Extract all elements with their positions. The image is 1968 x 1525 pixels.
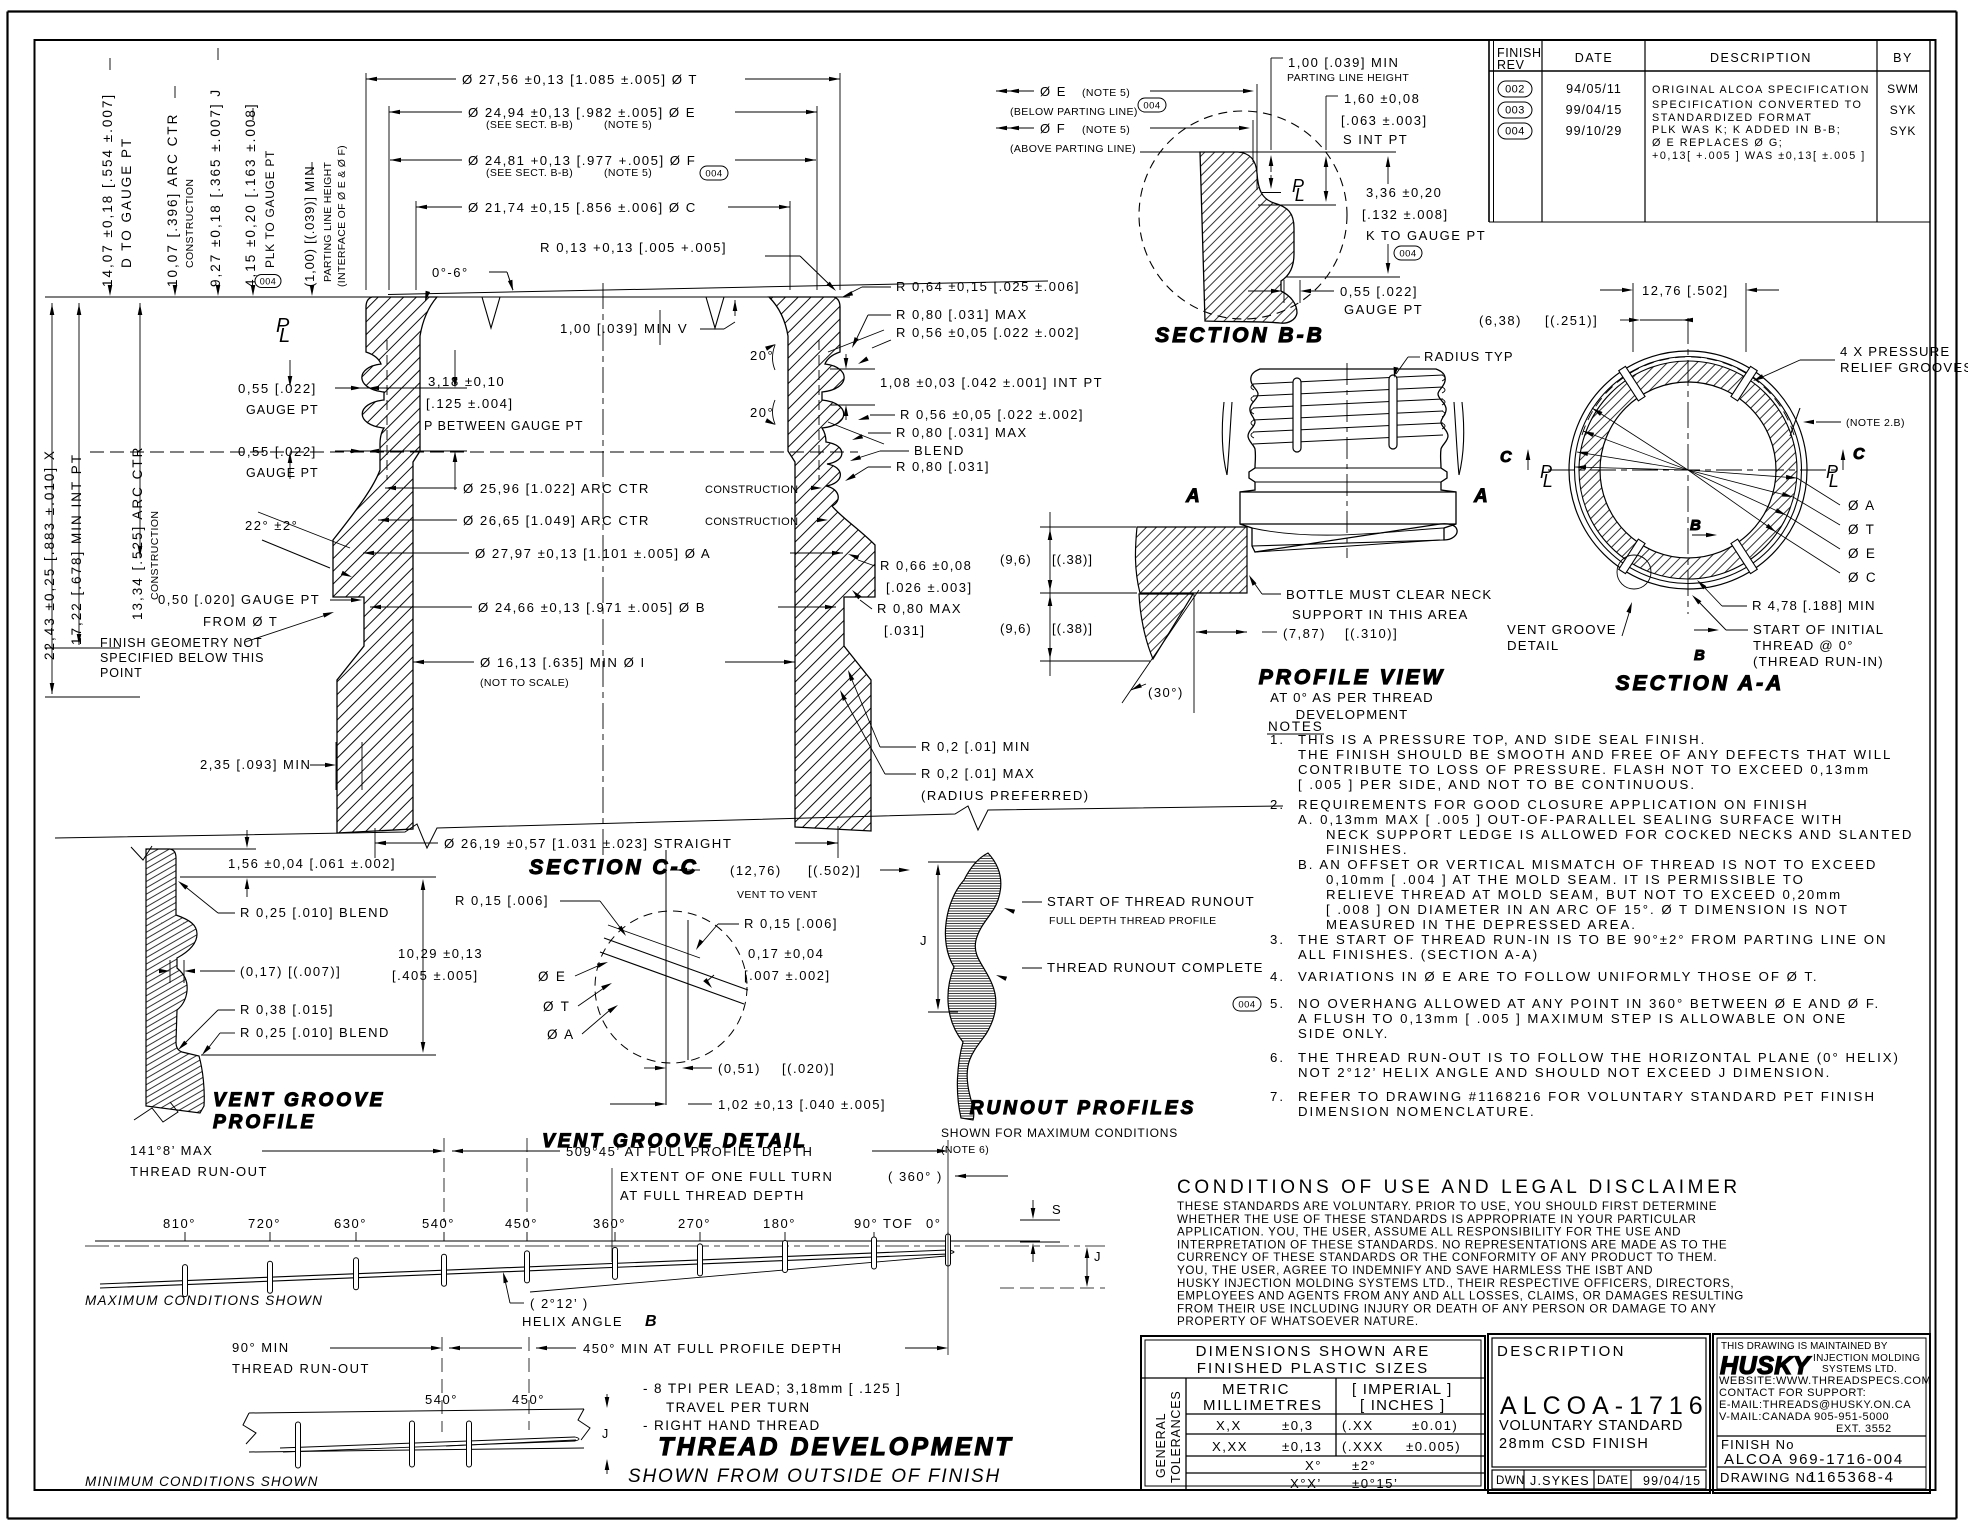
svg-text:B: B	[1694, 647, 1705, 664]
svg-text:450°: 450°	[512, 1392, 545, 1407]
svg-text:[.132 ±.008]: [.132 ±.008]	[1362, 207, 1449, 222]
svg-text:004: 004	[705, 168, 722, 179]
svg-text:(NOTE 5): (NOTE 5)	[1082, 124, 1130, 136]
svg-text:Ø A: Ø A	[1848, 498, 1876, 513]
svg-text:SECTION C-C: SECTION C-C	[529, 856, 699, 879]
svg-text:CONSTRUCTION: CONSTRUCTION	[705, 516, 798, 528]
svg-text:450° MIN AT FULL PROFILE DEPTH: 450° MIN AT FULL PROFILE DEPTH	[583, 1341, 842, 1356]
svg-text:1,00 [.039] MIN: 1,00 [.039] MIN	[1288, 55, 1399, 70]
svg-text:START OF INITIAL: START OF INITIAL	[1753, 622, 1884, 637]
svg-text:J.SYKES: J.SYKES	[1530, 1474, 1590, 1488]
svg-text:CONTRIBUTE TO LOSS OF PRESSURE: CONTRIBUTE TO LOSS OF PRESSURE. FLASH NO…	[1298, 762, 1870, 777]
svg-text:(NOTE 5): (NOTE 5)	[1082, 87, 1130, 99]
svg-text:D TO GAUGE PT: D TO GAUGE PT	[119, 137, 134, 268]
svg-text:GENERAL: GENERAL	[1154, 1413, 1168, 1478]
svg-text:0°-6°: 0°-6°	[432, 265, 469, 280]
svg-text:004: 004	[1505, 125, 1525, 137]
svg-text:(.XX: (.XX	[1342, 1418, 1374, 1433]
svg-text:[ .008 ] ON DIAMETER IN AN ARC: [ .008 ] ON DIAMETER IN AN ARC OF 15°. Ø…	[1326, 902, 1849, 917]
svg-text:ALCOA-1716: ALCOA-1716	[1500, 1392, 1709, 1420]
svg-text:R 0,25 [.010] BLEND: R 0,25 [.010] BLEND	[240, 1025, 390, 1040]
svg-text:FINISHES.: FINISHES.	[1326, 842, 1408, 857]
svg-text:DETAIL: DETAIL	[1507, 638, 1559, 653]
svg-text:TOLERANCES: TOLERANCES	[1169, 1390, 1183, 1483]
svg-text:PLK WAS K; K ADDED IN B-B;: PLK WAS K; K ADDED IN B-B;	[1652, 124, 1841, 136]
svg-text:Ø T: Ø T	[543, 999, 571, 1014]
svg-text:(12,76): (12,76)	[730, 863, 782, 878]
svg-text:Ø C: Ø C	[1848, 570, 1877, 585]
svg-text:(.XXX: (.XXX	[1342, 1439, 1384, 1454]
svg-text:004: 004	[1238, 999, 1255, 1010]
svg-text:141°8’ MAX: 141°8’ MAX	[130, 1143, 213, 1158]
svg-text:90° TOF: 90° TOF	[854, 1216, 913, 1231]
svg-text:[.125 ±.004]: [.125 ±.004]	[426, 396, 514, 411]
svg-text:6.: 6.	[1270, 1050, 1285, 1065]
svg-text:14,07 ±0,18 [.554 ±.007]: 14,07 ±0,18 [.554 ±.007]	[100, 93, 115, 287]
svg-text:NOT 2°12’ HELIX ANGLE AND SHOU: NOT 2°12’ HELIX ANGLE AND SHOULD NOT EXC…	[1298, 1065, 1831, 1080]
svg-text:SWM: SWM	[1887, 82, 1919, 96]
svg-text:720°: 720°	[248, 1216, 281, 1231]
svg-text:GAUGE PT: GAUGE PT	[1344, 302, 1423, 317]
svg-text:RELIEF GROOVES: RELIEF GROOVES	[1840, 360, 1968, 375]
svg-text:VARIATIONS IN Ø E ARE TO FOLLO: VARIATIONS IN Ø E ARE TO FOLLOW UNIFORML…	[1298, 969, 1819, 984]
svg-text:4.: 4.	[1270, 969, 1285, 984]
svg-text:±0,3: ±0,3	[1282, 1418, 1314, 1433]
svg-text:004: 004	[1399, 248, 1416, 259]
svg-text:99/04/15: 99/04/15	[1566, 103, 1623, 117]
svg-text:Ø 26,19 ±0,57 [1.031 ±.023] ST: Ø 26,19 ±0,57 [1.031 ±.023] STRAIGHT	[444, 836, 732, 851]
svg-text:360°: 360°	[593, 1216, 626, 1231]
svg-text:J: J	[920, 933, 928, 948]
svg-text:180°: 180°	[763, 1216, 796, 1231]
svg-text:(30°): (30°)	[1148, 685, 1184, 700]
svg-text:9,27 ±0,18 [.365 ±.007] J: 9,27 ±0,18 [.365 ±.007] J	[208, 88, 223, 287]
svg-text:[.026 ±.003]: [.026 ±.003]	[886, 580, 973, 595]
svg-text:540°: 540°	[422, 1216, 455, 1231]
svg-text:CONSTRUCTION: CONSTRUCTION	[149, 511, 161, 600]
svg-text:0,55 [.022]: 0,55 [.022]	[238, 444, 317, 459]
svg-text:EMPLOYEES AND AGENTS FROM ANY: EMPLOYEES AND AGENTS FROM ANY AND ALL LO…	[1177, 1290, 1744, 1303]
svg-text:Ø E: Ø E	[538, 969, 567, 984]
svg-text:[.405 ±.005]: [.405 ±.005]	[392, 968, 479, 983]
svg-text:+0,13[ +.005 ] WAS ±0,13[ ±.00: +0,13[ +.005 ] WAS ±0,13[ ±.005 ]	[1652, 150, 1866, 162]
svg-text:(INTERFACE OF Ø E & Ø F): (INTERFACE OF Ø E & Ø F)	[336, 145, 348, 287]
svg-text:P BETWEEN GAUGE PT: P BETWEEN GAUGE PT	[424, 419, 583, 433]
svg-text:C: C	[1853, 446, 1865, 463]
svg-text:R 0,15 [.006]: R 0,15 [.006]	[744, 916, 838, 931]
svg-text:4 X PRESSURE: 4 X PRESSURE	[1840, 344, 1950, 359]
svg-text:GAUGE PT: GAUGE PT	[246, 466, 319, 480]
svg-text:( 360° ): ( 360° )	[888, 1169, 943, 1184]
svg-text:99/04/15: 99/04/15	[1643, 1474, 1701, 1488]
svg-text:20°: 20°	[750, 348, 774, 363]
svg-text:7.: 7.	[1270, 1089, 1285, 1104]
svg-text:(9,6): (9,6)	[1000, 621, 1032, 636]
svg-text:THE FINISH SHOULD BE SMOOTH AN: THE FINISH SHOULD BE SMOOTH AND FREE OF …	[1298, 747, 1892, 762]
svg-text:FROM THEIR USE INCLUDING INJUR: FROM THEIR USE INCLUDING INJURY OR DEATH…	[1177, 1302, 1717, 1315]
svg-text:FROM Ø T: FROM Ø T	[203, 614, 278, 629]
svg-text:THE THREAD RUN-OUT IS TO FOLLO: THE THREAD RUN-OUT IS TO FOLLOW THE HORI…	[1298, 1050, 1900, 1065]
svg-text:X,XX: X,XX	[1212, 1439, 1248, 1454]
svg-text:630°: 630°	[334, 1216, 367, 1231]
svg-text:APPLICATION. YOU, THE USER, A: APPLICATION. YOU, THE USER, ASSUME ALL R…	[1177, 1226, 1681, 1239]
svg-text:[ .005 ] PER SIDE, AND NOT TO: [ .005 ] PER SIDE, AND NOT TO BE CONTINU…	[1298, 777, 1696, 792]
svg-text:INTERPRETATION OF THESE STANDA: INTERPRETATION OF THESE STANDARDS. NO RE…	[1177, 1238, 1727, 1251]
svg-text:12,76 [.502]: 12,76 [.502]	[1642, 283, 1729, 298]
svg-text:[.031]: [.031]	[884, 623, 926, 638]
svg-text:SPECIFIED BELOW THIS: SPECIFIED BELOW THIS	[100, 651, 264, 665]
svg-text:PROFILE: PROFILE	[213, 1112, 316, 1133]
svg-text:(NOTE 5): (NOTE 5)	[604, 167, 652, 179]
svg-text:HUSKY INJECTION MOLDING SYSTEM: HUSKY INJECTION MOLDING SYSTEMS LTD., TH…	[1177, 1277, 1734, 1290]
svg-text:Ø 16,13 [.635] MIN Ø I: Ø 16,13 [.635] MIN Ø I	[480, 655, 646, 670]
svg-text:(NOTE 5): (NOTE 5)	[604, 119, 652, 131]
svg-text:(ABOVE PARTING LINE): (ABOVE PARTING LINE)	[1010, 143, 1136, 155]
svg-text:MEASURED IN THE DEPRESSED AREA: MEASURED IN THE DEPRESSED AREA.	[1326, 917, 1637, 932]
svg-text:Ø E REPLACES Ø G;: Ø E REPLACES Ø G;	[1652, 137, 1783, 149]
svg-text:PARTING LINE HEIGHT: PARTING LINE HEIGHT	[322, 161, 334, 282]
svg-text:SYK: SYK	[1890, 103, 1916, 117]
svg-text:(7,87): (7,87)	[1283, 626, 1326, 641]
svg-text:THREAD RUN-OUT: THREAD RUN-OUT	[232, 1361, 370, 1376]
svg-text:A FLUSH TO 0,13mm [ .005 ] MAX: A FLUSH TO 0,13mm [ .005 ] MAXIMUM STEP …	[1298, 1011, 1847, 1026]
svg-text:Ø 25,96 [1.022] ARC CTR: Ø 25,96 [1.022] ARC CTR	[463, 481, 650, 496]
svg-text:THREAD @ 0°: THREAD @ 0°	[1753, 638, 1854, 653]
svg-text:99/10/29: 99/10/29	[1566, 124, 1623, 138]
svg-text:DRAWING No: DRAWING No	[1720, 1470, 1815, 1485]
svg-text:SECTION A-A: SECTION A-A	[1616, 672, 1785, 695]
svg-text:L: L	[1295, 185, 1305, 205]
svg-text:A: A	[1473, 486, 1488, 507]
svg-text:VENT TO VENT: VENT TO VENT	[737, 889, 818, 901]
svg-text:R 0,80 [.031]: R 0,80 [.031]	[896, 459, 990, 474]
svg-text:450°: 450°	[505, 1216, 538, 1231]
svg-text:1,56 ±0,04 [.061 ±.002]: 1,56 ±0,04 [.061 ±.002]	[228, 856, 396, 871]
svg-text:(6,38): (6,38)	[1479, 313, 1522, 328]
svg-text:J: J	[1094, 1249, 1102, 1264]
svg-text:FINISH No: FINISH No	[1721, 1437, 1795, 1452]
svg-text:004: 004	[1143, 100, 1160, 111]
svg-text:THE START OF THREAD RUN-IN IS: THE START OF THREAD RUN-IN IS TO BE 90°±…	[1298, 932, 1888, 947]
svg-text:DWN: DWN	[1496, 1475, 1525, 1487]
svg-text:L: L	[1829, 471, 1839, 491]
svg-text:DESCRIPTION: DESCRIPTION	[1710, 51, 1812, 65]
svg-text:R 0,2 [.01] MIN: R 0,2 [.01] MIN	[921, 739, 1031, 754]
svg-text:THREAD DEVELOPMENT: THREAD DEVELOPMENT	[658, 1433, 1013, 1461]
svg-text:(NOT TO SCALE): (NOT TO SCALE)	[480, 677, 569, 689]
svg-text:E-MAIL:THREADS@HUSKY.ON.CA: E-MAIL:THREADS@HUSKY.ON.CA	[1719, 1399, 1911, 1411]
svg-text:YOU, THE USER, AGREE TO INDEMN: YOU, THE USER, AGREE TO INDEMNIFY AND SA…	[1177, 1264, 1653, 1277]
svg-text:R 0,56 ±0,05 [.022 ±.002]: R 0,56 ±0,05 [.022 ±.002]	[900, 407, 1084, 422]
svg-text:R 0,80 [.031] MAX: R 0,80 [.031] MAX	[896, 307, 1028, 322]
svg-text:DATE: DATE	[1597, 1475, 1628, 1487]
svg-text:K TO GAUGE PT: K TO GAUGE PT	[1366, 228, 1486, 243]
svg-text:X°X’: X°X’	[1290, 1476, 1322, 1491]
svg-text:20°: 20°	[750, 405, 774, 420]
svg-text:[.007 ±.002]: [.007 ±.002]	[744, 968, 831, 983]
svg-text:CONSTRUCTION: CONSTRUCTION	[184, 179, 196, 268]
svg-text:10,07 [.396] ARC CTR: 10,07 [.396] ARC CTR	[165, 113, 180, 287]
svg-text:Ø A: Ø A	[547, 1027, 575, 1042]
svg-text:[.063 ±.003]: [.063 ±.003]	[1341, 113, 1428, 128]
svg-text:Ø 27,56 ±0,13 [1.085 ±.005] Ø: Ø 27,56 ±0,13 [1.085 ±.005] Ø T	[462, 72, 698, 87]
svg-text:R 0,56 ±0,05 [.022 ±.002]: R 0,56 ±0,05 [.022 ±.002]	[896, 325, 1080, 340]
svg-text:[(.502)]: [(.502)]	[808, 863, 861, 878]
svg-text:REQUIREMENTS FOR GOOD CLOSURE: REQUIREMENTS FOR GOOD CLOSURE APPLICATIO…	[1298, 797, 1809, 812]
svg-text:[ INCHES ]: [ INCHES ]	[1360, 1397, 1445, 1414]
svg-text:NO OVERHANG ALLOWED AT ANY POI: NO OVERHANG ALLOWED AT ANY POINT IN 360°…	[1298, 996, 1880, 1011]
svg-text:POINT: POINT	[100, 666, 143, 680]
svg-text:1,08 ±0,03 [.042 ±.001] INT PT: 1,08 ±0,03 [.042 ±.001] INT PT	[880, 375, 1103, 390]
svg-text:(9,6): (9,6)	[1000, 552, 1032, 567]
svg-text:CONTACT FOR SUPPORT:: CONTACT FOR SUPPORT:	[1719, 1387, 1866, 1399]
svg-text:(0,51): (0,51)	[718, 1061, 761, 1076]
svg-text:Ø 24,66 ±0,13 [.971 ±.005] Ø B: Ø 24,66 ±0,13 [.971 ±.005] Ø B	[478, 600, 706, 615]
svg-text:FINISH GEOMETRY NOT: FINISH GEOMETRY NOT	[100, 636, 263, 650]
svg-text:V-MAIL:CANADA 905-951-5000: V-MAIL:CANADA 905-951-5000	[1719, 1411, 1889, 1423]
svg-text:2,35 [.093] MIN: 2,35 [.093] MIN	[200, 757, 311, 772]
svg-text:R 0,64 ±0,15 [.025 ±.006]: R 0,64 ±0,15 [.025 ±.006]	[896, 279, 1080, 294]
svg-text:DESCRIPTION: DESCRIPTION	[1497, 1343, 1626, 1360]
svg-text:(SEE SECT. B-B): (SEE SECT. B-B)	[486, 167, 573, 179]
svg-text:[(.251)]: [(.251)]	[1545, 313, 1598, 328]
svg-text:1.: 1.	[1270, 732, 1285, 747]
svg-text:1,02 ±0,13 [.040 ±.005]: 1,02 ±0,13 [.040 ±.005]	[718, 1097, 886, 1112]
svg-text:- RIGHT HAND THREAD: - RIGHT HAND THREAD	[643, 1418, 821, 1433]
svg-text:004: 004	[260, 276, 277, 286]
svg-text:CONSTRUCTION: CONSTRUCTION	[705, 484, 798, 496]
svg-text:( 2°12’ ): ( 2°12’ )	[530, 1296, 589, 1311]
svg-text:Ø E: Ø E	[1848, 546, 1877, 561]
svg-text:DIMENSION NOMENCLATURE.: DIMENSION NOMENCLATURE.	[1298, 1104, 1536, 1119]
svg-text:THIS IS A PRESSURE TOP, AND SI: THIS IS A PRESSURE TOP, AND SIDE SEAL FI…	[1298, 732, 1706, 747]
svg-text:THREAD RUNOUT COMPLETE: THREAD RUNOUT COMPLETE	[1047, 960, 1264, 975]
svg-text:R 0,13 +0,13 [.005 +.005]: R 0,13 +0,13 [.005 +.005]	[540, 240, 727, 255]
svg-text:SHOWN FOR MAXIMUM CONDITIONS: SHOWN FOR MAXIMUM CONDITIONS	[941, 1126, 1178, 1140]
svg-text:PROFILE VIEW: PROFILE VIEW	[1259, 666, 1446, 689]
svg-text:SUPPORT IN THIS AREA: SUPPORT IN THIS AREA	[1292, 607, 1468, 622]
svg-text:(SEE SECT. B-B): (SEE SECT. B-B)	[486, 119, 573, 131]
svg-text:28mm CSD FINISH: 28mm CSD FINISH	[1499, 1436, 1650, 1452]
svg-text:003: 003	[1505, 104, 1525, 116]
svg-text:FULL DEPTH THREAD PROFILE: FULL DEPTH THREAD PROFILE	[1049, 915, 1217, 927]
svg-text:0,55 [.022]: 0,55 [.022]	[238, 381, 317, 396]
svg-text:PLK TO GAUGE PT: PLK TO GAUGE PT	[263, 150, 277, 268]
svg-text:ALL FINISHES. (SECTION A-A): ALL FINISHES. (SECTION A-A)	[1298, 947, 1539, 962]
svg-text:810°: 810°	[163, 1216, 196, 1231]
svg-text:X°: X°	[1305, 1458, 1322, 1473]
svg-text:±0.005): ±0.005)	[1406, 1439, 1461, 1454]
svg-text:R 0,25 [.010] BLEND: R 0,25 [.010] BLEND	[240, 905, 390, 920]
svg-text:90° MIN: 90° MIN	[232, 1340, 290, 1355]
svg-text:REFER TO DRAWING #1168216 FOR: REFER TO DRAWING #1168216 FOR VOLUNTARY …	[1298, 1089, 1876, 1104]
svg-text:AT 0° AS PER THREAD: AT 0° AS PER THREAD	[1270, 690, 1434, 705]
svg-text:THESE STANDARDS ARE VOLUNTARY.: THESE STANDARDS ARE VOLUNTARY. PRIOR TO …	[1177, 1200, 1717, 1213]
svg-text:RUNOUT PROFILES: RUNOUT PROFILES	[970, 1098, 1197, 1119]
svg-text:THIS DRAWING IS MAINTAINED BY: THIS DRAWING IS MAINTAINED BY	[1721, 1341, 1888, 1352]
svg-text:B: B	[1690, 517, 1701, 534]
svg-text:270°: 270°	[678, 1216, 711, 1231]
svg-text:R 0,80 [.031] MAX: R 0,80 [.031] MAX	[896, 425, 1028, 440]
svg-text:Ø T: Ø T	[1848, 522, 1876, 537]
svg-text:CURRENCY OF THESE STANDARDS OR: CURRENCY OF THESE STANDARDS OR THE CONFO…	[1177, 1251, 1717, 1264]
svg-text:0,17 ±0,04: 0,17 ±0,04	[748, 946, 824, 961]
svg-text:HELIX ANGLE: HELIX ANGLE	[522, 1314, 623, 1329]
svg-text:(THREAD RUN-IN): (THREAD RUN-IN)	[1753, 654, 1884, 669]
svg-text:[(.020)]: [(.020)]	[782, 1061, 835, 1076]
svg-text:VENT GROOVE: VENT GROOVE	[1507, 622, 1617, 637]
svg-text:MAXIMUM CONDITIONS SHOWN: MAXIMUM CONDITIONS SHOWN	[85, 1293, 323, 1308]
svg-text:WEBSITE:WWW.THREADSPECS.COM: WEBSITE:WWW.THREADSPECS.COM	[1719, 1375, 1931, 1387]
svg-text:Ø F: Ø F	[1040, 121, 1066, 136]
svg-text:509°45’ AT FULL PROFILE DEPTH: 509°45’ AT FULL PROFILE DEPTH	[566, 1144, 813, 1159]
svg-text:R 0,2 [.01] MAX: R 0,2 [.01] MAX	[921, 766, 1035, 781]
svg-text:EXT. 3552: EXT. 3552	[1836, 1423, 1892, 1435]
svg-text:THREAD RUN-OUT: THREAD RUN-OUT	[130, 1164, 268, 1179]
svg-text:BOTTLE MUST CLEAR NECK: BOTTLE MUST CLEAR NECK	[1286, 587, 1492, 602]
svg-text:[ IMPERIAL ]: [ IMPERIAL ]	[1352, 1381, 1453, 1398]
svg-text:±0.01): ±0.01)	[1412, 1418, 1458, 1433]
svg-text:X,X: X,X	[1216, 1418, 1242, 1433]
svg-text:(1,00) [(.039)] MIN: (1,00) [(.039)] MIN	[302, 166, 317, 287]
svg-text:J: J	[602, 1427, 609, 1441]
svg-text:BLEND: BLEND	[914, 443, 965, 458]
svg-text:PROPERTY OF WHATSOEVER NATURE.: PROPERTY OF WHATSOEVER NATURE.	[1177, 1315, 1419, 1328]
svg-text:S INT PT: S INT PT	[1343, 132, 1408, 147]
svg-text:STANDARDIZED FORMAT: STANDARDIZED FORMAT	[1652, 112, 1812, 124]
svg-text:±0°15’: ±0°15’	[1352, 1476, 1398, 1491]
svg-text:VOLUNTARY STANDARD: VOLUNTARY STANDARD	[1499, 1418, 1683, 1434]
svg-text:SYK: SYK	[1890, 124, 1916, 138]
svg-text:5.: 5.	[1270, 996, 1285, 1011]
svg-text:0,10mm [ .004 ] AT THE MOLD SE: 0,10mm [ .004 ] AT THE MOLD SEAM. IT IS …	[1326, 872, 1805, 887]
svg-text:L: L	[1543, 471, 1553, 491]
svg-text:SIDE ONLY.: SIDE ONLY.	[1298, 1026, 1389, 1041]
svg-text:Ø 27,97 ±0,13 [1.101 ±.005] Ø: Ø 27,97 ±0,13 [1.101 ±.005] Ø A	[475, 546, 711, 561]
svg-text:DIMENSIONS SHOWN ARE: DIMENSIONS SHOWN ARE	[1196, 1343, 1431, 1360]
svg-text:A: A	[1185, 486, 1200, 507]
svg-text:R 0,66 ±0,08: R 0,66 ±0,08	[880, 558, 972, 573]
svg-text:INJECTION MOLDING: INJECTION MOLDING	[1813, 1353, 1920, 1364]
svg-text:DATE: DATE	[1575, 51, 1613, 65]
svg-text:ORIGINAL ALCOA SPECIFICATION: ORIGINAL ALCOA SPECIFICATION	[1652, 84, 1870, 96]
svg-text:WHETHER THE USE OF THESE STAND: WHETHER THE USE OF THESE STANDARDS IS AP…	[1177, 1213, 1697, 1226]
svg-text:REV: REV	[1497, 58, 1525, 72]
svg-text:- 8 TPI PER LEAD; 3,18mm [ .12: - 8 TPI PER LEAD; 3,18mm [ .125 ]	[643, 1381, 901, 1396]
svg-text:1,00 [.039] MIN V: 1,00 [.039] MIN V	[560, 321, 688, 336]
svg-text:0,50 [.020] GAUGE PT: 0,50 [.020] GAUGE PT	[158, 592, 320, 607]
svg-text:L: L	[279, 325, 290, 347]
svg-text:R 0,15 [.006]: R 0,15 [.006]	[455, 893, 549, 908]
svg-text:R 0,38 [.015]: R 0,38 [.015]	[240, 1002, 334, 1017]
svg-text:2.: 2.	[1270, 797, 1285, 812]
svg-text:MINIMUM CONDITIONS SHOWN: MINIMUM CONDITIONS SHOWN	[85, 1474, 319, 1489]
svg-text:EXTENT OF ONE FULL TURN: EXTENT OF ONE FULL TURN	[620, 1169, 833, 1184]
svg-text:S: S	[1052, 1202, 1062, 1217]
svg-text:[(.38)]: [(.38)]	[1052, 621, 1093, 636]
svg-text:SECTION B-B: SECTION B-B	[1155, 324, 1325, 347]
svg-text:SHOWN FROM OUTSIDE OF FINISH: SHOWN FROM OUTSIDE OF FINISH	[628, 1466, 1001, 1487]
svg-text:CONDITIONS OF USE AND LEGAL DI: CONDITIONS OF USE AND LEGAL DISCLAIMER	[1177, 1177, 1741, 1198]
svg-text:540°: 540°	[425, 1392, 458, 1407]
svg-text:3,36 ±0,20: 3,36 ±0,20	[1366, 185, 1442, 200]
svg-text:R 4,78 [.188] MIN: R 4,78 [.188] MIN	[1752, 598, 1876, 613]
svg-text:002: 002	[1505, 83, 1525, 95]
svg-text:±0,13: ±0,13	[1282, 1439, 1322, 1454]
svg-text:VENT GROOVE: VENT GROOVE	[213, 1090, 385, 1111]
svg-text:MILLIMETRES: MILLIMETRES	[1203, 1397, 1323, 1414]
svg-text:22° ±2°: 22° ±2°	[245, 518, 298, 533]
svg-text:Ø 24,94 ±0,13 [.982 ±.005] Ø E: Ø 24,94 ±0,13 [.982 ±.005] Ø E	[468, 105, 696, 120]
svg-text:0,55 [.022]: 0,55 [.022]	[1340, 284, 1418, 299]
svg-text:B: B	[645, 1313, 657, 1330]
svg-text:±2°: ±2°	[1352, 1458, 1376, 1473]
svg-text:C: C	[1500, 449, 1512, 466]
svg-text:RADIUS TYP: RADIUS TYP	[1424, 349, 1514, 364]
svg-text:NECK SUPPORT LEDGE IS ALLOWED: NECK SUPPORT LEDGE IS ALLOWED FOR COCKED…	[1326, 827, 1913, 842]
svg-text:13,34 [.525] ARC CTR: 13,34 [.525] ARC CTR	[130, 446, 145, 620]
svg-text:[(.310)]: [(.310)]	[1345, 626, 1398, 641]
svg-text:94/05/11: 94/05/11	[1566, 82, 1622, 96]
svg-text:10,29 ±0,13: 10,29 ±0,13	[398, 946, 483, 961]
svg-text:0°: 0°	[926, 1216, 941, 1231]
svg-text:[(.38)]: [(.38)]	[1052, 552, 1093, 567]
svg-text:Ø E: Ø E	[1040, 84, 1067, 99]
svg-text:(0,17) [(.007)]: (0,17) [(.007)]	[240, 964, 341, 979]
svg-text:BY: BY	[1893, 51, 1913, 65]
svg-text:METRIC: METRIC	[1222, 1381, 1290, 1398]
svg-text:PARTING LINE HEIGHT: PARTING LINE HEIGHT	[1287, 72, 1409, 84]
svg-text:DEVELOPMENT: DEVELOPMENT	[1296, 707, 1409, 722]
svg-text:B. AN OFFSET OR VERTICAL MISMA: B. AN OFFSET OR VERTICAL MISMATCH OF THR…	[1298, 857, 1877, 872]
svg-text:Ø 21,74 ±0,15 [.856 ±.006] Ø C: Ø 21,74 ±0,15 [.856 ±.006] Ø C	[468, 200, 697, 215]
svg-text:FINISHED PLASTIC SIZES: FINISHED PLASTIC SIZES	[1197, 1360, 1430, 1377]
svg-text:(RADIUS PREFERRED): (RADIUS PREFERRED)	[921, 788, 1090, 803]
svg-text:17,22 [.678] MIN INT PT: 17,22 [.678] MIN INT PT	[69, 453, 84, 645]
svg-text:Ø 26,65 [1.049] ARC CTR: Ø 26,65 [1.049] ARC CTR	[463, 513, 650, 528]
svg-text:GAUGE PT: GAUGE PT	[246, 403, 319, 417]
svg-text:R 0,80 MAX: R 0,80 MAX	[877, 601, 962, 616]
svg-text:1165368-4: 1165368-4	[1808, 1469, 1895, 1486]
svg-text:SYSTEMS LTD.: SYSTEMS LTD.	[1822, 1364, 1897, 1375]
svg-text:ALCOA 969-1716-004: ALCOA 969-1716-004	[1724, 1451, 1904, 1468]
svg-text:RELIEVE THREAD AT MOLD SEAM, B: RELIEVE THREAD AT MOLD SEAM, BUT NOT TO …	[1326, 887, 1842, 902]
svg-text:(BELOW PARTING LINE): (BELOW PARTING LINE)	[1010, 106, 1138, 118]
svg-text:(NOTE 2.B): (NOTE 2.B)	[1846, 417, 1905, 429]
svg-text:4,15 ±0,20 [.163 ±.008]: 4,15 ±0,20 [.163 ±.008]	[243, 102, 258, 287]
svg-text:22,43 ±0,25 [.883 ±.010] X: 22,43 ±0,25 [.883 ±.010] X	[42, 449, 57, 660]
svg-text:AT FULL THREAD DEPTH: AT FULL THREAD DEPTH	[620, 1188, 805, 1203]
svg-text:SPECIFICATION CONVERTED TO: SPECIFICATION CONVERTED TO	[1652, 99, 1862, 111]
svg-text:3.: 3.	[1270, 932, 1285, 947]
svg-text:1,60 ±0,08: 1,60 ±0,08	[1344, 91, 1420, 106]
svg-text:TRAVEL PER TURN: TRAVEL PER TURN	[666, 1400, 811, 1415]
svg-text:Ø 24,81 +0,13 [.977 +.005] Ø F: Ø 24,81 +0,13 [.977 +.005] Ø F	[468, 153, 696, 168]
svg-text:A. 0,13mm MAX [ .005 ] OUT-OF-: A. 0,13mm MAX [ .005 ] OUT-OF-PARALLEL S…	[1298, 812, 1843, 827]
svg-text:START OF THREAD RUNOUT: START OF THREAD RUNOUT	[1047, 894, 1255, 909]
svg-text:3,18 ±0,10: 3,18 ±0,10	[428, 374, 505, 389]
